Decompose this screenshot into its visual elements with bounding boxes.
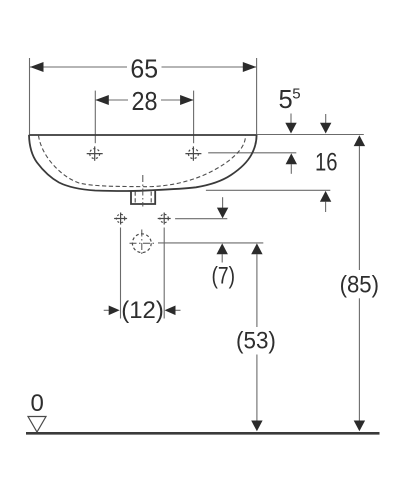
tap hole right (cross with dashed circle) (185, 146, 201, 160)
drain box inner walls (dashed) (134, 192, 136, 204)
dimension 16: upper arrow (down) at wall line (325, 114, 327, 125)
dimension 16: lower arrow (up) to line C (320, 191, 331, 202)
dimension 65: dimension line (30, 66, 127, 68)
svg-text:(53): (53) (236, 328, 276, 355)
basin outer outline (29, 134, 257, 136)
dimension 28: right extension line (193, 91, 195, 144)
siphon outlet (dashed circle with centre lines) (130, 230, 155, 257)
svg-text:5: 5 (292, 85, 300, 102)
dimension 12: right extension line (163, 228, 165, 319)
floor line (26, 432, 380, 435)
svg-text:5: 5 (279, 86, 293, 114)
fixing hole left (cross) (114, 213, 127, 225)
dimension 85: vertical line with arrows (354, 135, 365, 146)
svg-text:16: 16 (315, 148, 338, 176)
dimension 65: right extension line (256, 58, 258, 135)
dimension 5.5: lower arrow (up) to line B (286, 153, 297, 164)
dimension 7: lower arrow (up) to line E (217, 243, 228, 254)
reference line B: rim underside level (208, 152, 296, 154)
dimension 53: vertical line with arrows (251, 243, 262, 254)
dimension 65: left extension line (29, 58, 31, 134)
svg-text:(85): (85) (340, 272, 379, 299)
dimension 28: left arrowhead (95, 95, 109, 105)
dimension 5.5: upper arrow (down) at wall line (290, 114, 292, 126)
dimension 28: left extension line (94, 91, 96, 144)
reference line E: siphon level (158, 242, 263, 244)
floor datum triangle (28, 417, 46, 433)
reference line D: fixing hole level (175, 218, 227, 220)
tap hole left (cross with dashed circle) (87, 146, 103, 160)
dimension 7: upper arrow (down) to line D (222, 197, 224, 208)
dimension 28: dimension line (95, 99, 128, 101)
reference line C: basin bottom level (206, 189, 330, 191)
svg-text:0: 0 (31, 390, 44, 417)
reference line A: basin top level extended right (257, 134, 364, 136)
basin inner rim (dashed) (39, 136, 246, 187)
dimension 28: right arrowhead (180, 95, 194, 105)
dimension 12: right arrow (pointing left) (175, 309, 181, 311)
fixing hole right (cross) (158, 213, 171, 225)
dimension 65: left arrowhead (30, 62, 44, 72)
dimension 12: left extension line (120, 228, 122, 319)
overflow/drain box below basin (131, 191, 155, 204)
svg-text:(12): (12) (121, 297, 164, 324)
dimension 12: left arrow (pointing right) (104, 309, 110, 311)
drain box centre line (142, 175, 144, 207)
dimension 65: right arrowhead (243, 62, 256, 72)
svg-text:28: 28 (132, 88, 158, 116)
svg-text:65: 65 (130, 56, 158, 84)
svg-text:(7): (7) (212, 262, 236, 289)
